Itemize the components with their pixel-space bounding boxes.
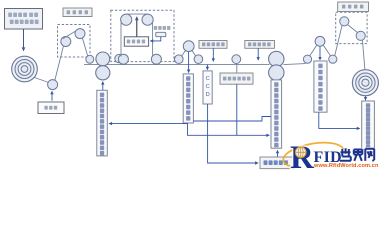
label: 点胶&贴装 [199,41,227,49]
label: 系统质量装置 [220,73,253,84]
wire: web to CCD (arrow down) [206,65,208,70]
svg-text:www.RfidWorld.com.cn: www.RfidWorld.com.cn [313,163,379,169]
watermark: orange swoosh [283,143,343,167]
box: motion control card (运动控制卡) [260,157,295,169]
roller: dancer [315,36,325,46]
roller: floating roller [48,80,58,90]
wire: heat press label to web (arrow down) [257,48,259,60]
wire: dispense label to web (arrow down) [212,48,214,61]
wire: CCD to motion control card (arrow right) [208,104,259,163]
wire: tension controller to unwind driver (arrow left) [109,122,188,125]
roller: guide right of nip [115,54,123,62]
roller: before tension sensor [175,55,184,64]
wire: roller to right buffer [335,26,342,56]
dashed box: right buffer unit [336,12,367,43]
wire: sensor to 纠偏机构 (arrow left) [150,37,161,41]
wire: tension roller to left tension controller (arrow down) [188,52,190,73]
label: 热压&检测 [245,41,275,49]
roller B (buffer) [75,29,85,39]
roller: right buffer top-left [340,17,349,26]
wire: main web line (after heat nip) [284,64,306,65]
wire: steering arrow up from 纠偏机构 [136,17,138,37]
wire: tension controller to feed driver (straight) [194,117,271,122]
box: feed motor driver (vertical) [271,80,282,148]
roller: guide unit bottom-right [151,54,161,64]
wire: note box to supply reel (arrow) [23,29,25,51]
wire: web V over tension roller [182,51,196,57]
wire: reel to floating roller [35,78,49,83]
box: CCD (vertical) [203,71,212,104]
roller: after tension sensor [194,55,203,64]
label: right buffer (提料装置) [338,2,369,12]
dashed box: left buffer unit [58,25,91,58]
roller: main nip lower [96,66,110,80]
svg-text:D: D [206,92,210,98]
watermark: globe in R [295,147,306,158]
wire: unwind driver to nip roller (arrow up) [102,82,104,90]
roller: tension sensing roller [183,41,194,52]
wire: main web line (left section) [84,64,270,66]
wire: guide unit left vertical web [120,23,122,57]
wire: floating roller to left buffer roller A [55,47,64,81]
wire: guide unit top web [126,13,147,15]
box: winder motor driver (vertical) [362,101,375,150]
wire: buffer to take-up reel [362,40,365,69]
wire: buffer roller to roller [348,25,358,33]
label: floating roller (浮动辊) with arrow [38,91,64,113]
roller: heat nip upper [269,51,284,66]
take-up reel [352,70,378,96]
wire: web V over dancer [310,45,331,55]
roller A (buffer) [61,37,71,47]
roller: before dancer [303,55,311,63]
box: right tension controller (vertical) [314,61,327,112]
roller: guide left of nip [86,55,94,63]
box: unwind motor driver (vertical) [97,90,108,156]
wire: roller A to roller B [63,30,77,38]
box: 纠偏机构 [124,37,148,46]
wire: right tension controller to winder driver (arrow right) [319,112,360,128]
roller: inspection guide [232,55,241,64]
supply reel [12,56,38,82]
roller: guide unit top-right [142,14,153,25]
svg-text:C: C [206,84,210,90]
wire: take-up reel to winder driver (arrow down) [365,96,367,100]
box: unwind note (主动放料、基板处于松弛状态) [5,9,43,30]
wire: motion card to feed driver (arrow up) [277,150,279,157]
roller: right buffer bottom-right [356,31,365,40]
box: left tension controller (vertical) [183,74,193,123]
svg-text:C: C [206,76,210,82]
roller: heat nip lower [269,65,284,80]
roller: after dancer [329,55,337,63]
label: left buffer (储料装置) [63,8,92,17]
wire: web to vision label [236,64,238,73]
roller: guide unit top-left [121,14,132,25]
label: 纠偏检测 (text only) [154,26,171,30]
wire: tension controller trunk to feed driver (arrow right) [188,124,270,136]
dashed box: web-guide unit (纠偏) [111,10,174,61]
roller: guide unit bottom-left [118,54,128,64]
wire: dancer to right tension controller (arrow down) [319,46,321,60]
wire: guide unit right vertical web [152,23,154,57]
watermark: 世界网 (drawn strokes) [340,148,374,161]
roller: main nip upper [96,52,110,66]
wire: vision label to feed driver (arrow right) [236,84,238,135]
wire: roller B down to guide roller [82,38,88,60]
sensor: edge detector [156,32,166,36]
